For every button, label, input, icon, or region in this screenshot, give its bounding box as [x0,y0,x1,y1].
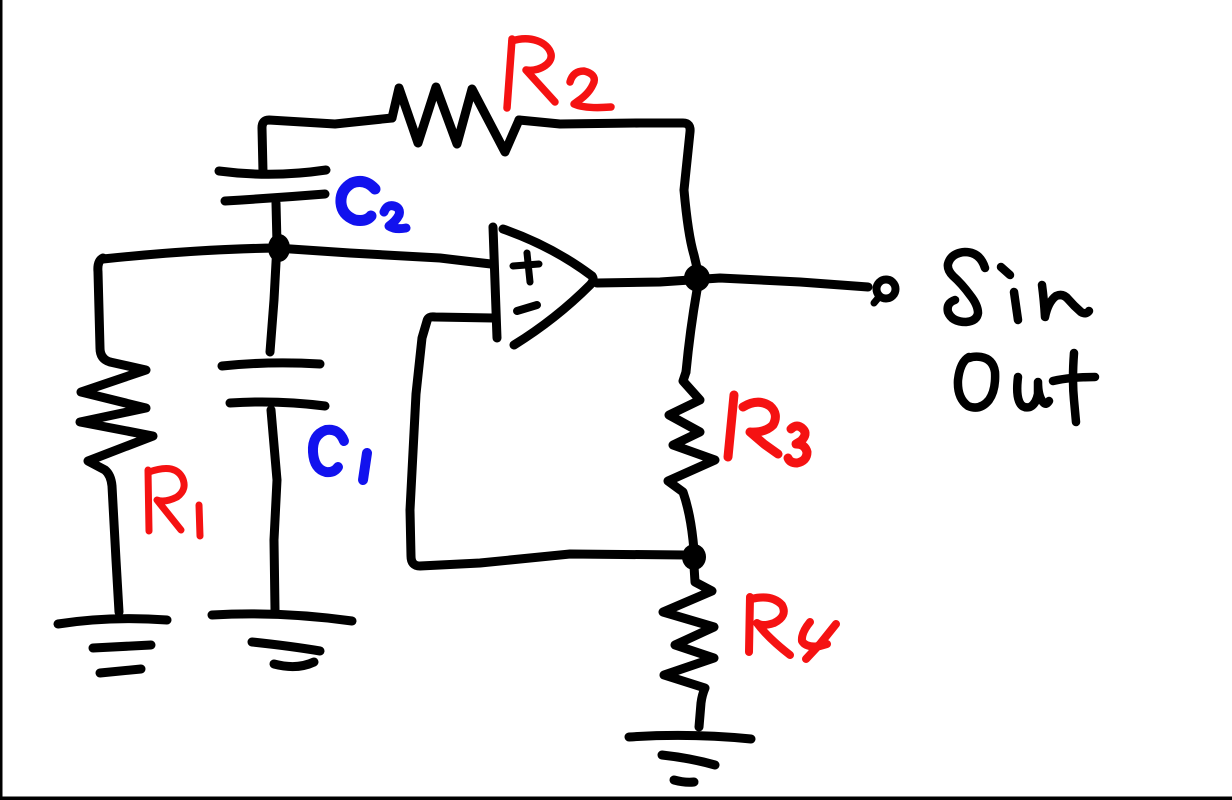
capacitor C1 bottom plate [230,402,325,406]
node A junction dot [268,234,290,262]
label C2 [341,181,375,220]
wire op-amp output to terminal [597,278,868,287]
resistor R4 [663,566,714,727]
resistor R1 [80,362,153,612]
label C1 [313,430,344,472]
capacitor C2 top plate [219,170,326,174]
bottom window border [0,797,1232,800]
label R4 [749,597,836,659]
capacitor C2 bottom plate [225,194,325,201]
wire left branch down to R1 [98,258,110,362]
ground G2 line2 [252,642,320,651]
ground G3 line3 [674,780,694,782]
resistor R2 [392,87,519,152]
capacitor C1 top plate [222,363,320,366]
op-amp plus sign [513,253,539,282]
ground G1 line2 [93,645,151,648]
ground G3 line1 [629,735,751,739]
output node junction dot [684,265,710,292]
wire input node row [103,248,491,264]
wire from R2 to output column [519,120,698,272]
op-amp U1 triangle [503,229,593,345]
wire top-left from C2 up to R2 [262,118,392,172]
ground G2 line1 [212,614,352,621]
op-amp U1 input bar [493,227,497,338]
ground G2 line3 [274,662,314,667]
label R2 [507,39,611,108]
wire output node down to R3 [686,290,697,372]
ground G1 line3 [100,669,141,673]
ground G3 line2 [662,755,715,765]
op-amp minus sign [517,305,537,311]
text Out [958,357,995,408]
text Sin [948,252,985,322]
wire C1 down to ground [271,410,277,610]
label R1 [148,468,200,536]
left window border [0,0,3,800]
output terminal circle [877,280,896,299]
wire C2 to node A to C1 [270,203,277,352]
resistor R3 [668,372,715,550]
wire feedback from node B to op-amp inverting input [410,317,686,566]
label R3 [728,395,807,463]
ground G1 line1 [58,619,167,624]
output terminal tail [874,297,879,303]
node B junction dot [682,544,706,570]
